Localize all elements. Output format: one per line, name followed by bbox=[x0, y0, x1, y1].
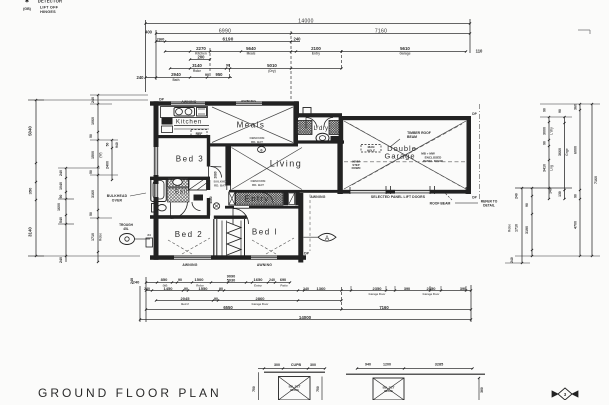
bulkhead over note bbox=[107, 193, 146, 203]
svg-text:3190: 3190 bbox=[525, 226, 529, 234]
svg-text:Robe: Robe bbox=[193, 69, 201, 73]
svg-text:6550: 6550 bbox=[223, 305, 233, 310]
step down note bbox=[352, 160, 361, 171]
hall west wall bbox=[207, 135, 210, 216]
svg-text:240: 240 bbox=[269, 278, 275, 282]
svg-text:HINGES: HINGES bbox=[40, 10, 56, 14]
svg-text:Bed 2: Bed 2 bbox=[175, 230, 203, 239]
svg-text:AWNING: AWNING bbox=[241, 100, 256, 104]
svg-text:5610: 5610 bbox=[400, 46, 410, 51]
svg-text:2940: 2940 bbox=[171, 72, 181, 77]
linen closet bbox=[229, 192, 235, 205]
right dimension lines bbox=[505, 103, 600, 264]
bed1 ceiling dashes bbox=[252, 238, 294, 254]
svg-text:Bed 2: Bed 2 bbox=[181, 302, 189, 306]
svg-text:(W): (W) bbox=[99, 152, 103, 157]
svg-text:1500: 1500 bbox=[195, 277, 205, 282]
hall dim text bbox=[209, 171, 218, 203]
bottom detail right bd set opening bbox=[346, 363, 485, 401]
svg-text:(GB): (GB) bbox=[23, 7, 32, 11]
svg-text:240: 240 bbox=[133, 280, 140, 285]
svg-text:350: 350 bbox=[28, 187, 33, 194]
svg-text:4700: 4700 bbox=[574, 221, 578, 229]
svg-text:5640: 5640 bbox=[246, 46, 256, 51]
svg-text:90: 90 bbox=[184, 287, 188, 291]
svg-text:GROUND FLOOR PLAN: GROUND FLOOR PLAN bbox=[38, 386, 222, 400]
svg-text:AWNING: AWNING bbox=[182, 263, 197, 267]
svg-text:DETAIL: DETAIL bbox=[483, 204, 495, 208]
circle marker 6 bbox=[258, 147, 266, 153]
svg-text:240: 240 bbox=[515, 193, 519, 199]
svg-text:240: 240 bbox=[59, 257, 63, 263]
bottom dimension lines bbox=[133, 275, 472, 323]
svg-text:CUPB: CUPB bbox=[291, 363, 302, 367]
svg-text:90: 90 bbox=[214, 297, 218, 301]
bed3 door arc bbox=[211, 167, 222, 178]
svg-text:ROOF BEAM: ROOF BEAM bbox=[430, 202, 451, 206]
hall east wall bbox=[225, 147, 231, 191]
svg-text:1710: 1710 bbox=[91, 233, 95, 241]
svg-text:90: 90 bbox=[558, 109, 562, 113]
svg-text:7160: 7160 bbox=[594, 176, 598, 184]
svg-text:3410: 3410 bbox=[543, 164, 547, 172]
svg-text:90: 90 bbox=[574, 194, 578, 198]
svg-text:240: 240 bbox=[137, 75, 145, 80]
roof beam note with leader bbox=[430, 193, 470, 206]
svg-text:45L: 45L bbox=[123, 227, 129, 231]
svg-text:2100: 2100 bbox=[311, 46, 321, 51]
stray scan mark bbox=[578, 30, 590, 34]
svg-text:1200: 1200 bbox=[383, 363, 391, 367]
garage right wall bbox=[467, 116, 472, 194]
svg-text:90: 90 bbox=[525, 203, 529, 207]
svg-text:AWNING: AWNING bbox=[181, 100, 196, 104]
svg-text:390: 390 bbox=[404, 287, 410, 291]
svg-text:3660: 3660 bbox=[558, 148, 562, 156]
svg-text:1550: 1550 bbox=[199, 286, 209, 291]
svg-text:SELECTED PANEL LIFT DOORS: SELECTED PANEL LIFT DOORS bbox=[371, 195, 426, 199]
svg-text:1450: 1450 bbox=[164, 286, 174, 291]
svg-text:14000: 14000 bbox=[299, 315, 312, 320]
svg-text:L'dry: L'dry bbox=[314, 125, 329, 132]
svg-text:Garage Door: Garage Door bbox=[369, 292, 387, 296]
svg-text:940: 940 bbox=[365, 363, 371, 367]
svg-text:3140: 3140 bbox=[28, 227, 33, 237]
svg-text:1040: 1040 bbox=[59, 182, 63, 190]
svg-text:OPNG: OPNG bbox=[384, 389, 394, 393]
svg-text:OPNG: OPNG bbox=[290, 388, 300, 392]
bed1 top wall bbox=[225, 206, 300, 209]
svg-text:Entry: Entry bbox=[312, 52, 320, 56]
svg-text:750: 750 bbox=[316, 386, 320, 392]
svg-text:90: 90 bbox=[178, 278, 182, 282]
svg-text:DETECTOR: DETECTOR bbox=[38, 0, 63, 4]
svg-text:50: 50 bbox=[89, 212, 93, 216]
entry floor hatch bbox=[236, 192, 284, 205]
svg-text:5030: 5030 bbox=[227, 279, 235, 283]
svg-text:1600: 1600 bbox=[57, 203, 61, 211]
svg-text:3160: 3160 bbox=[91, 190, 95, 198]
svg-text:110: 110 bbox=[476, 49, 483, 54]
awning labels bbox=[181, 100, 325, 267]
svg-text:50: 50 bbox=[89, 134, 93, 138]
left dimension lines bbox=[28, 94, 149, 263]
bed2 label bbox=[175, 230, 203, 239]
svg-text:240: 240 bbox=[294, 37, 302, 42]
svg-text:HOLE: HOLE bbox=[367, 149, 375, 153]
svg-text:Patio: Patio bbox=[280, 284, 288, 288]
garage roof dashed line bbox=[344, 161, 466, 163]
svg-text:2350: 2350 bbox=[427, 286, 437, 291]
svg-text:1360: 1360 bbox=[317, 286, 327, 291]
living diagonals bbox=[232, 148, 303, 190]
svg-text:90: 90 bbox=[226, 64, 230, 68]
laundry fixtures bbox=[296, 118, 340, 143]
svg-text:Garage Door: Garage Door bbox=[423, 292, 441, 296]
svg-text:7160: 7160 bbox=[379, 305, 389, 310]
svg-text:14000: 14000 bbox=[298, 19, 313, 25]
svg-text:RD. BAT: RD. BAT bbox=[252, 183, 264, 187]
svg-text:2400: 2400 bbox=[106, 161, 110, 169]
svg-text:950: 950 bbox=[216, 72, 224, 77]
rear step wall at laundry bbox=[294, 101, 311, 118]
svg-text:Bath: Bath bbox=[175, 190, 190, 196]
svg-text:Meals: Meals bbox=[247, 52, 256, 56]
legend lift off hinges note bbox=[23, 6, 59, 14]
svg-text:850: 850 bbox=[161, 277, 168, 282]
svg-text:BEAM: BEAM bbox=[407, 135, 417, 139]
svg-text:140: 140 bbox=[549, 188, 553, 194]
svg-text:Bed I: Bed I bbox=[252, 228, 278, 237]
garage west wall bbox=[337, 117, 343, 194]
svg-text:Kitchen: Kitchen bbox=[176, 119, 202, 126]
svg-text:5040: 5040 bbox=[28, 126, 33, 136]
svg-text:3140: 3140 bbox=[192, 63, 202, 68]
svg-text:PANEL DOOR: PANEL DOOR bbox=[423, 159, 444, 163]
svg-text:300: 300 bbox=[274, 363, 280, 367]
timber roof beam note bbox=[390, 131, 431, 147]
meals ceiling note bbox=[249, 136, 264, 144]
front door jambs bbox=[284, 192, 300, 205]
svg-text:Entry: Entry bbox=[254, 284, 262, 288]
laundry rear wall bbox=[296, 113, 342, 117]
svg-text:1500: 1500 bbox=[91, 151, 95, 159]
bath top wall hatched bbox=[150, 177, 210, 180]
bath door arc bbox=[192, 202, 201, 211]
svg-text:Meals: Meals bbox=[237, 121, 266, 130]
svg-text:REF: REF bbox=[196, 132, 203, 136]
marker A oval with leader bbox=[304, 233, 337, 241]
top dimension lines bbox=[137, 19, 484, 100]
svg-text:L'dry: L'dry bbox=[550, 127, 554, 135]
svg-text:3000: 3000 bbox=[543, 127, 547, 135]
refer to detail note bbox=[470, 200, 498, 208]
svg-text:400: 400 bbox=[145, 30, 153, 35]
bottom wall with bedroom windows bbox=[150, 255, 306, 259]
left 240 dim label bbox=[130, 278, 134, 284]
meals label bbox=[237, 121, 266, 130]
svg-text:LIFT OFF: LIFT OFF bbox=[40, 6, 59, 10]
garage front wall with door openings bbox=[341, 190, 471, 194]
left wall with windows bbox=[154, 101, 159, 259]
kitchen label bbox=[176, 119, 202, 126]
garage side notes bbox=[421, 152, 443, 164]
circle marker hall bbox=[213, 203, 219, 209]
bed1 label bbox=[252, 228, 278, 237]
laundry label bbox=[314, 125, 329, 132]
bed1 east wall bbox=[298, 193, 303, 263]
svg-text:360: 360 bbox=[574, 104, 578, 110]
section marker diamond 3 bbox=[552, 388, 578, 400]
living label bbox=[270, 159, 303, 169]
svg-text:940: 940 bbox=[115, 142, 119, 148]
svg-text:390: 390 bbox=[460, 287, 466, 291]
svg-text:2270: 2270 bbox=[196, 46, 206, 51]
bed2 door arc bbox=[171, 202, 188, 219]
svg-text:Entry: Entry bbox=[245, 195, 270, 204]
svg-text:Bath: Bath bbox=[172, 78, 179, 82]
svg-text:DOWN: DOWN bbox=[352, 166, 361, 170]
svg-text:360: 360 bbox=[480, 387, 484, 393]
svg-text:RD. BAT: RD. BAT bbox=[214, 183, 226, 187]
svg-text:300: 300 bbox=[310, 363, 316, 367]
svg-text:Garage Door: Garage Door bbox=[252, 302, 270, 306]
svg-text:BULKHEAD: BULKHEAD bbox=[107, 194, 128, 198]
svg-text:50: 50 bbox=[106, 143, 110, 147]
svg-text:750: 750 bbox=[252, 386, 256, 392]
legend smoke detector symbol bbox=[25, 0, 62, 5]
svg-text:A: A bbox=[325, 236, 329, 242]
svg-text:90: 90 bbox=[543, 141, 547, 145]
svg-text:90: 90 bbox=[205, 73, 209, 77]
garage diagonals bbox=[344, 121, 466, 189]
bed2 ceiling dashes bbox=[168, 238, 210, 254]
bottom detail left bd set opening bbox=[252, 363, 326, 400]
entry label bbox=[245, 195, 270, 204]
svg-text:OVER: OVER bbox=[112, 199, 123, 203]
bath label bbox=[175, 190, 190, 196]
svg-text:2045: 2045 bbox=[181, 296, 191, 301]
svg-text:6990: 6990 bbox=[219, 29, 231, 35]
svg-text:AWNING: AWNING bbox=[257, 263, 272, 267]
svg-text:90: 90 bbox=[219, 287, 223, 291]
svg-text:Robe: Robe bbox=[508, 224, 512, 232]
svg-text:2350: 2350 bbox=[373, 286, 383, 291]
kitchen bench and sink bbox=[161, 107, 210, 138]
svg-text:2860: 2860 bbox=[256, 296, 266, 301]
svg-text:5010: 5010 bbox=[267, 63, 277, 68]
svg-text:Garage: Garage bbox=[384, 152, 415, 161]
svg-text:Bed 3: Bed 3 bbox=[176, 155, 204, 164]
meals diagonals bbox=[212, 107, 293, 143]
garage label bbox=[384, 144, 416, 161]
svg-text:Garage: Garage bbox=[400, 52, 411, 56]
garage rear wall bbox=[341, 116, 471, 120]
title ground floor plan bbox=[38, 386, 222, 400]
meals right wall bbox=[293, 106, 298, 144]
svg-text:690: 690 bbox=[280, 278, 286, 282]
svg-text:240: 240 bbox=[59, 170, 63, 176]
eave dashed lines bbox=[310, 104, 480, 251]
svg-text:240: 240 bbox=[144, 287, 150, 291]
svg-text:200: 200 bbox=[198, 55, 206, 60]
svg-text:4080: 4080 bbox=[209, 196, 213, 203]
rear wall kitchen and meals bbox=[150, 101, 298, 105]
living and entry front wall bbox=[229, 190, 341, 193]
svg-text:Robe: Robe bbox=[99, 233, 103, 241]
selected panel lift doors note bbox=[371, 195, 426, 199]
svg-text:1650: 1650 bbox=[254, 277, 264, 282]
svg-text:240: 240 bbox=[510, 257, 514, 263]
svg-text:RD. BAT: RD. BAT bbox=[251, 140, 263, 144]
bath bed2 wall bbox=[150, 215, 210, 219]
svg-text:90: 90 bbox=[543, 108, 547, 112]
manhole box bbox=[361, 145, 381, 153]
meals living wall bbox=[209, 143, 299, 146]
svg-text:Grge: Grge bbox=[565, 148, 569, 156]
bed3 label bbox=[176, 155, 204, 164]
svg-text:AWNING: AWNING bbox=[310, 195, 325, 199]
svg-text:2|60: 2|60 bbox=[157, 37, 166, 42]
svg-text:DP: DP bbox=[159, 98, 164, 102]
left wall exterior marks bbox=[146, 233, 153, 247]
living ceiling note bbox=[214, 179, 266, 187]
svg-text:50: 50 bbox=[59, 195, 63, 199]
svg-text:1710: 1710 bbox=[515, 224, 519, 232]
kitchen bed3 wall bbox=[158, 135, 209, 138]
trough symbol bbox=[119, 223, 150, 245]
svg-text:130: 130 bbox=[558, 191, 562, 197]
downpipe labels bbox=[159, 98, 477, 256]
svg-text:Living: Living bbox=[270, 159, 303, 169]
svg-text:24: 24 bbox=[147, 233, 151, 237]
svg-text:✱: ✱ bbox=[25, 0, 29, 5]
svg-text:240: 240 bbox=[91, 97, 95, 103]
svg-text:7160: 7160 bbox=[375, 29, 387, 35]
svg-text:1060: 1060 bbox=[91, 117, 95, 125]
svg-text:Lng: Lng bbox=[550, 165, 554, 171]
svg-text:240: 240 bbox=[303, 287, 309, 291]
laundry bottom wall bbox=[294, 140, 344, 143]
bath fixtures bbox=[151, 178, 207, 213]
svg-text:2080: 2080 bbox=[214, 171, 218, 178]
svg-text:DP: DP bbox=[304, 252, 309, 256]
svg-text:6190: 6190 bbox=[222, 37, 233, 42]
garage door jamb ticks bbox=[350, 186, 466, 194]
bed1 door arc bbox=[233, 209, 249, 225]
svg-text:3285: 3285 bbox=[435, 363, 443, 367]
entry door arc to living bbox=[262, 193, 273, 204]
svg-text:540: 540 bbox=[59, 217, 63, 223]
svg-text:(Dry): (Dry) bbox=[268, 69, 275, 73]
robe walls between bed2 and bed1 bbox=[214, 216, 247, 257]
svg-text:50: 50 bbox=[89, 170, 93, 174]
svg-text:6000: 6000 bbox=[574, 146, 578, 154]
